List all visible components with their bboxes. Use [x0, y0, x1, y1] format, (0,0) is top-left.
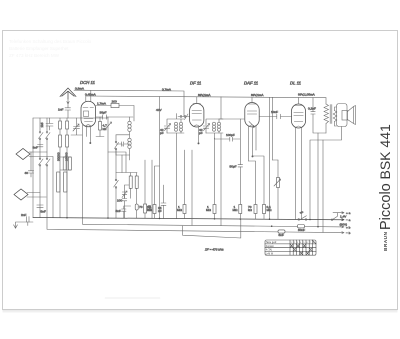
svg-text:89V,1mA: 89V,1mA [251, 93, 264, 97]
resistor 1M2 [213, 205, 216, 214]
svg-text:1nF: 1nF [58, 108, 63, 112]
wire long vertical 152 [151, 160, 153, 218]
wire trafo bottom drop [318, 133, 323, 232]
svg-text:2nF: 2nF [21, 213, 26, 217]
capacitor 38pF [96, 115, 133, 119]
capacitor 50pF [238, 165, 243, 167]
svg-text:L+M W: L+M W [266, 254, 274, 256]
oscillator padder cluster [108, 152, 143, 218]
svg-text:MΩ: MΩ [147, 208, 153, 212]
capacitor 2nF [27, 217, 30, 226]
svg-text:+P: +P [300, 211, 304, 215]
bottom bus B3 [47, 218, 344, 234]
svg-text:MΩ: MΩ [177, 208, 183, 212]
svg-text:Piccolo: Piccolo [378, 183, 394, 230]
tube DF11 [190, 81, 212, 145]
svg-text:70: 70 [139, 205, 143, 209]
coil [213, 122, 216, 125]
valve table [265, 240, 316, 256]
oscillator coil Losc1 [116, 117, 131, 155]
capacitor 100 [122, 199, 127, 219]
svg-text:+ a: + a [346, 211, 351, 215]
antenna arrow [67, 99, 69, 106]
switch S1d [46, 159, 51, 165]
ground [14, 222, 33, 228]
wire AVC vertical [239, 119, 241, 205]
resistor 1M [183, 205, 186, 214]
connector diamond J1 [16, 149, 30, 160]
connector diamond J2 [14, 189, 28, 200]
antenna [60, 88, 76, 99]
speaker [337, 104, 356, 127]
wire [39, 118, 41, 218]
coil L1 [63, 157, 66, 170]
wire [46, 118, 48, 218]
bus H1 0,9mA [74, 90, 184, 116]
svg-text:50pF: 50pF [230, 165, 237, 169]
resistor 70k [135, 204, 138, 210]
resistor 0,1M2 [263, 205, 266, 214]
svg-text:10nF: 10nF [271, 110, 278, 114]
svg-text:0,9mA: 0,9mA [75, 86, 85, 90]
output transformer T3 [324, 98, 337, 133]
tube DAF11 [244, 81, 264, 162]
svg-text:DAF 11: DAF 11 [244, 81, 259, 86]
resistor 100 [66, 121, 69, 129]
resistor 47k [96, 117, 104, 137]
coil L4 [64, 172, 67, 192]
capacitor 1nF [65, 106, 71, 118]
wire vertical 221 [220, 133, 222, 226]
grid contact S3 [178, 114, 190, 120]
capacitor 10nF coupling [259, 114, 291, 119]
svg-text:− a: − a [346, 218, 351, 222]
trimmer C5 [106, 117, 112, 218]
wire [27, 193, 46, 198]
switch battery [332, 213, 337, 220]
wire [32, 118, 34, 218]
volume pot [277, 178, 280, 188]
bottom bus B4 [183, 219, 241, 238]
anode feed vertical [270, 97, 273, 219]
capacitor 0,2nF [311, 98, 326, 133]
svg-text:ZF = 473 kHz: ZF = 473 kHz [204, 248, 224, 252]
schematic main group [14, 80, 356, 298]
svg-text:40: 40 [25, 171, 29, 175]
svg-text:pF: pF [160, 131, 164, 135]
svg-text:pF: pF [199, 131, 203, 135]
svg-text:0,2nF: 0,2nF [308, 107, 316, 111]
switch [114, 180, 119, 187]
svg-text:1,7mA: 1,7mA [97, 102, 107, 106]
switch S2 [115, 143, 119, 149]
svg-text:5nF: 5nF [279, 233, 284, 237]
IF transformer T2 [199, 97, 223, 139]
svg-text:BSK 441: BSK 441 [377, 124, 393, 179]
capacitor 50nF bottom [298, 225, 305, 228]
capacitor 5nF bottom [278, 230, 285, 233]
svg-text:38pF: 38pF [100, 111, 107, 115]
svg-text:Telefunken Schaltung des Braun: Telefunken Schaltung des Braun Piccolo [9, 39, 92, 44]
switch S1c [39, 159, 44, 165]
capacitor 5nF osc [122, 206, 131, 218]
svg-text:DF 11: DF 11 [190, 81, 202, 86]
resistor 0,1M [153, 205, 156, 214]
svg-text:50nF: 50nF [298, 228, 305, 232]
svg-text:30000: 30000 [56, 152, 60, 161]
capacitor 100pF [215, 137, 241, 141]
switch S1b [46, 133, 51, 139]
svg-text:MΩ: MΩ [233, 208, 239, 212]
resistor R mid1 [144, 204, 147, 213]
svg-text:89V,1,05mA: 89V,1,05mA [298, 93, 316, 97]
resistor 70k [254, 205, 257, 214]
tube DCH11 [80, 80, 96, 224]
svg-text:nF: nF [158, 209, 162, 213]
BRAUN Piccolo BSK 441 vertical branding [377, 124, 394, 251]
wire [29, 152, 53, 218]
coil box pair [59, 135, 62, 147]
bus H2 drop [159, 97, 161, 219]
IF transformer T1 [160, 114, 184, 219]
grid wire DAF11 [219, 118, 244, 120]
svg-text:5nF: 5nF [41, 210, 46, 214]
junction dots [66, 217, 319, 228]
bus H3 grid [33, 117, 108, 119]
wire [66, 118, 68, 218]
svg-text:10000: 10000 [64, 152, 68, 161]
capacitor mid 25nF [161, 185, 166, 218]
svg-text:Kontakt: Kontakt [266, 245, 274, 248]
capacitor 1n5 [46, 118, 53, 130]
bottom bus B2 [83, 224, 344, 228]
faint pencil line [105, 297, 160, 299]
svg-text:MΩ: MΩ [206, 208, 212, 212]
svg-text:MΩ: MΩ [267, 208, 273, 212]
svg-text:(90V): (90V) [340, 223, 348, 227]
wire [60, 157, 71, 170]
capacitor 40pF [28, 157, 33, 177]
coil L2 [68, 157, 71, 170]
resistor 100 [59, 121, 62, 129]
trimmer [204, 124, 210, 131]
page bottom shadow [3, 310, 398, 311]
svg-text:DL 11: DL 11 [290, 81, 302, 86]
wire osc columns [116, 144, 130, 173]
bus H2 89V anode [86, 96, 326, 98]
faint header text [9, 39, 92, 58]
bottom bus B1 [33, 218, 344, 221]
svg-text:Batterie Empfanger Superhet: Batterie Empfanger Superhet [9, 46, 69, 51]
svg-text:BRAUN: BRAUN [383, 232, 389, 251]
svg-text:100: 100 [117, 199, 122, 203]
wire vertical 192 [191, 150, 193, 225]
svg-text:89V,1mA: 89V,1mA [198, 93, 211, 97]
battery terminal +a [333, 212, 344, 214]
coil [175, 122, 178, 125]
svg-text:40V: 40V [156, 108, 162, 112]
tube DL11 [290, 81, 316, 220]
capacitor Cosc [116, 142, 130, 146]
capacitor 3nF [38, 145, 44, 147]
svg-text:DCH 11: DCH 11 [80, 80, 96, 85]
capacitor 5nF left [37, 205, 43, 207]
svg-text:1,4V: 1,4V [340, 214, 347, 218]
svg-text:ZF 473 kHz Bereich MW: ZF 473 kHz Bereich MW [9, 53, 60, 58]
wire speaker return [310, 127, 342, 220]
switch S1a [39, 133, 44, 139]
coil box pair osc [129, 176, 132, 188]
trimmer [122, 191, 127, 198]
svg-text:100: 100 [112, 99, 117, 103]
svg-text:kΩ: kΩ [248, 208, 253, 212]
resistor 1M3 [239, 205, 242, 214]
svg-text:4 (TA): 4 (TA) [266, 249, 272, 252]
wire [59, 118, 61, 218]
svg-text:− b: − b [346, 231, 351, 235]
wire [30, 152, 32, 157]
svg-text:Taste gedr.: Taste gedr. [266, 241, 278, 244]
trimmer C4 [73, 124, 79, 131]
svg-text:100pF: 100pF [226, 133, 235, 137]
svg-text:3nF: 3nF [33, 146, 38, 150]
trimmer [165, 124, 171, 131]
svg-text:1k5: 1k5 [40, 122, 44, 127]
coil L3 [57, 172, 60, 192]
switch power [299, 216, 306, 221]
resistor 100ohm (1005) [96, 106, 134, 122]
svg-text:0,7mA: 0,7mA [162, 88, 172, 92]
svg-text:5nF: 5nF [116, 209, 121, 213]
